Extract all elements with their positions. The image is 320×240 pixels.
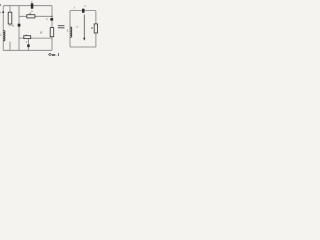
wire top of left circuit — [3, 5, 52, 7]
wire capacitor C3 branch — [28, 38, 30, 50]
capacitor C3 body — [27, 44, 30, 47]
wire top of right circuit — [70, 10, 96, 12]
capacitor C4 on right wire of left circuit — [50, 18, 53, 21]
resistor R2 body — [27, 15, 35, 18]
resistor R4 body on right wire — [50, 28, 54, 37]
wire left side of left circuit — [2, 6, 4, 51]
arrow voltage u in right circuit — [83, 15, 85, 39]
wire resistor R1 branch top lead — [9, 6, 11, 13]
svg-text:R: R — [39, 30, 42, 34]
wire bottom of right circuit — [70, 46, 96, 48]
arrow current direction on left wire — [2, 11, 4, 14]
arrowhead of voltage arrow — [83, 38, 85, 41]
svg-text:Фиг. 1: Фиг. 1 — [48, 52, 59, 57]
wire right side of right circuit — [95, 11, 97, 47]
wire horizontal through resistor R2 — [19, 15, 52, 17]
svg-text:L: L — [66, 28, 69, 32]
wire right side of left circuit — [51, 6, 53, 51]
inductor L1 coil on left wire — [3, 31, 5, 41]
svg-text:i: i — [74, 5, 75, 9]
junction node on right wire — [51, 16, 52, 17]
svg-text:R: R — [90, 26, 93, 30]
resistor R1 body — [8, 12, 12, 24]
wire resistor R1 branch lower lead — [9, 42, 11, 51]
wire resistor R1 branch bottom stub — [9, 24, 11, 26]
resistor R5 body on right wire of right circuit — [94, 24, 97, 33]
equivalence sign — [58, 25, 65, 28]
capacitor C1 on middle branch — [18, 24, 21, 27]
inductor L2 coil on left wire of right circuit — [70, 27, 72, 37]
wire left side of right circuit — [69, 11, 71, 47]
left margin artifact mark lower — [0, 12, 2, 14]
svg-text:L: L — [0, 33, 2, 37]
left margin artifact mark upper — [0, 4, 2, 6]
capacitor C5 on top wire of right circuit — [82, 9, 85, 13]
resistor R3 body on lower wire — [24, 36, 31, 39]
wire middle vertical branch — [18, 6, 20, 51]
capacitor C2 on top wire — [31, 3, 34, 8]
wire bottom of left circuit — [3, 49, 52, 51]
wire horizontal lower through resistor R3 — [19, 37, 52, 39]
